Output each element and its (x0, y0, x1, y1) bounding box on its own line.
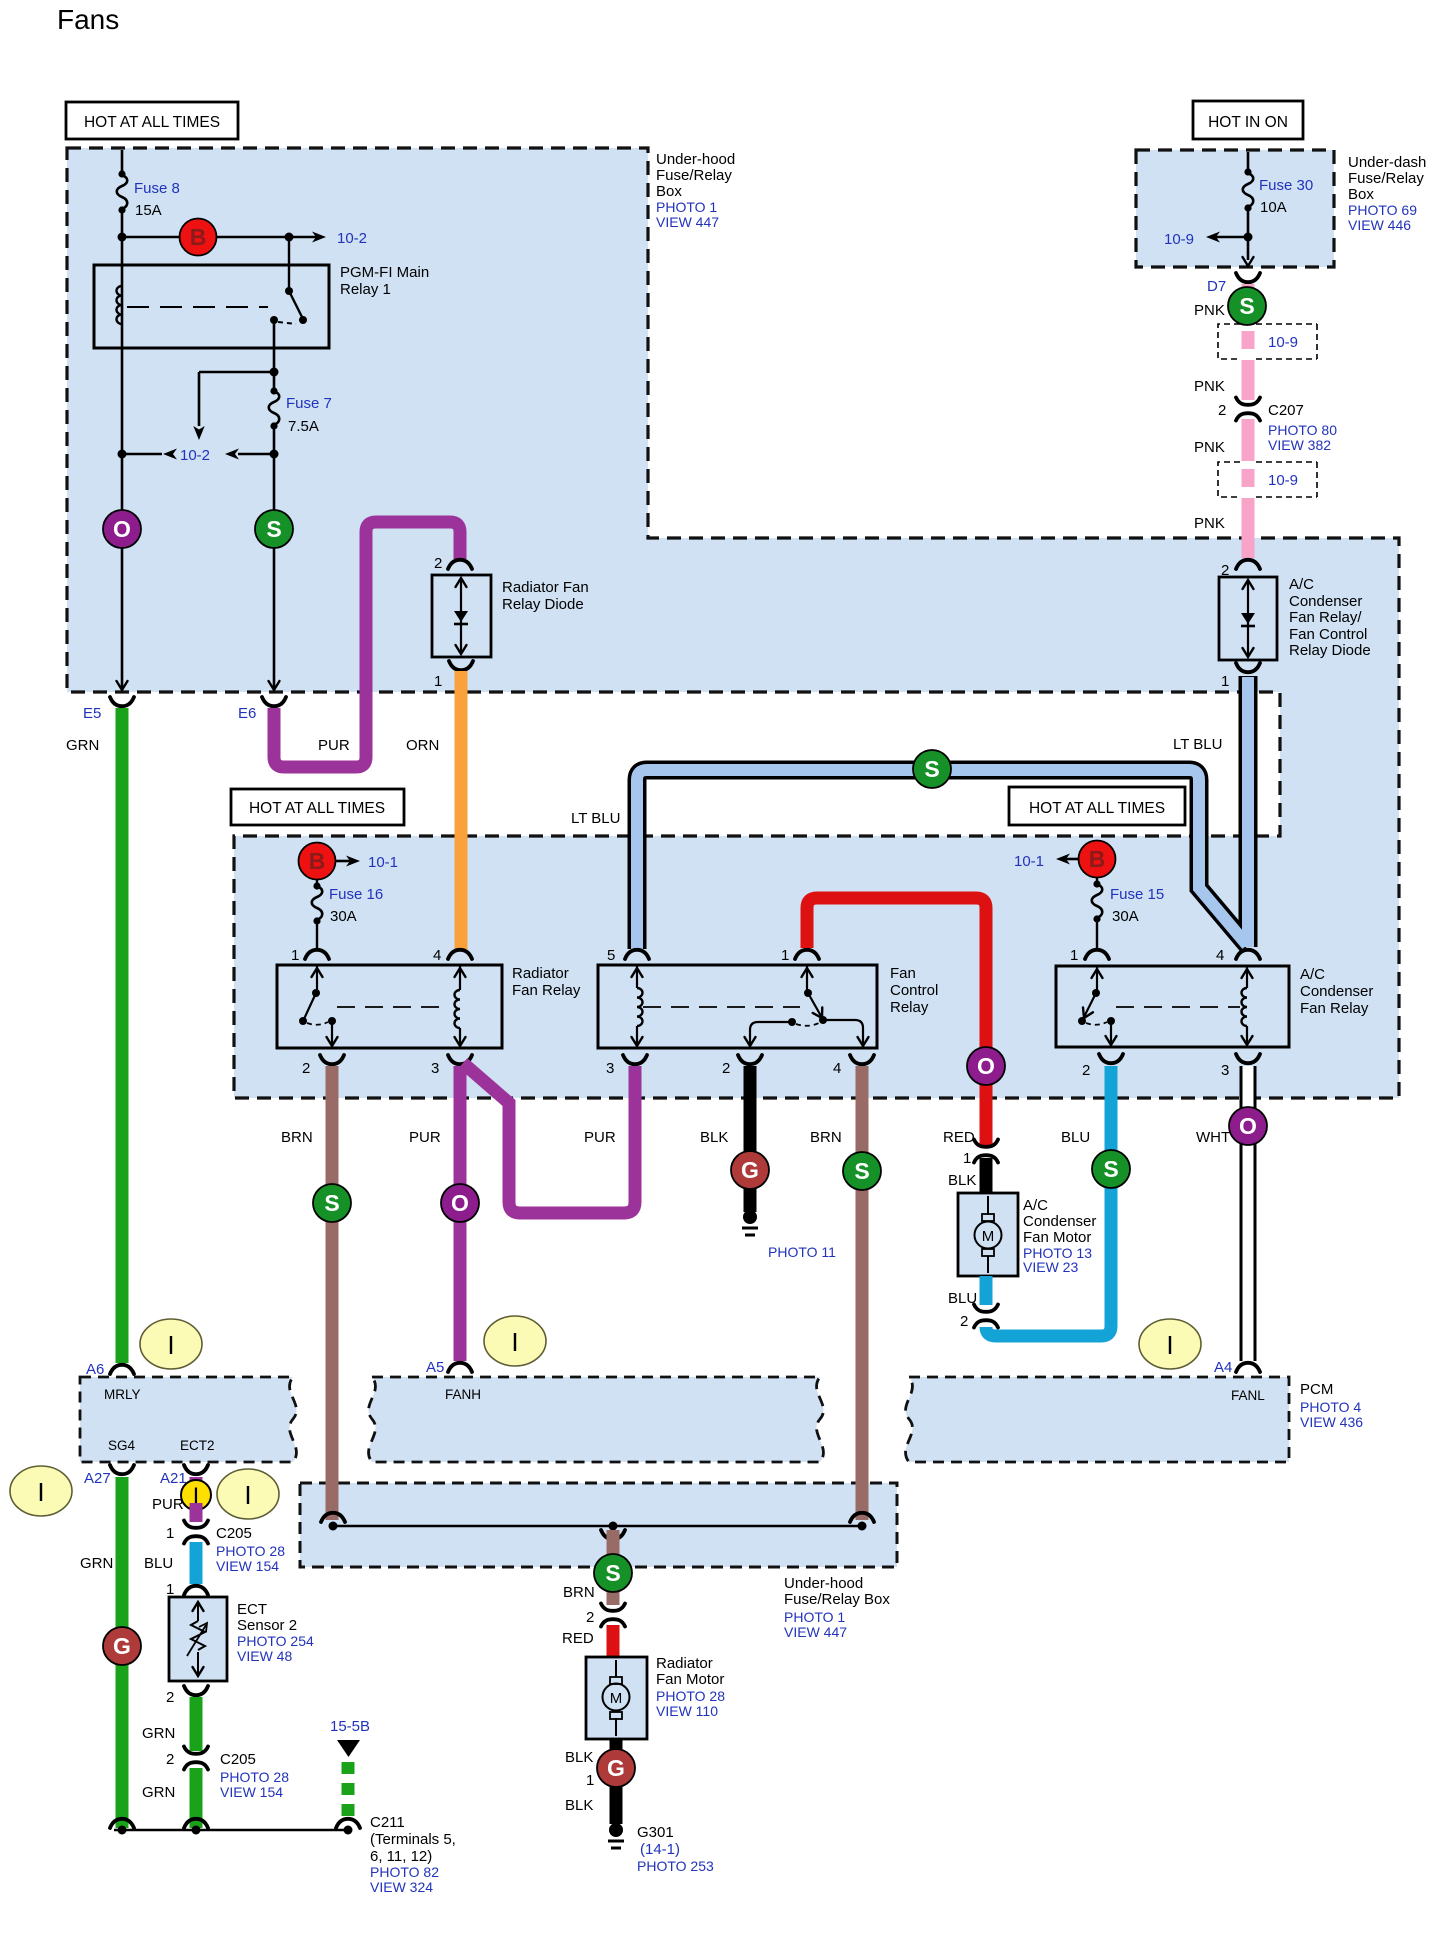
PGM-FI relay actuation dashed line (127, 306, 268, 308)
radiator fan motor connector 2 (601, 1604, 625, 1627)
svg-text:VIEW 48: VIEW 48 (237, 1648, 292, 1664)
svg-text:VIEW 324: VIEW 324 (370, 1879, 433, 1895)
svg-text:PHOTO 28: PHOTO 28 (216, 1543, 285, 1559)
pink wire C207 to bracket 2 (1242, 419, 1255, 461)
svg-text:Fan: Fan (890, 965, 916, 982)
svg-text:PUR: PUR (584, 1129, 616, 1146)
svg-text:ORN: ORN (406, 737, 439, 754)
A/C condenser fan relay switch (1096, 967, 1098, 993)
svg-text:Relay Diode: Relay Diode (1289, 642, 1371, 659)
svg-text:Fuse/Relay: Fuse/Relay (656, 167, 732, 184)
circle S1 (255, 510, 293, 548)
svg-text:HOT AT ALL TIMES: HOT AT ALL TIMES (249, 800, 385, 817)
svg-text:PNK: PNK (1194, 439, 1225, 456)
radiator fan relay box (277, 965, 502, 1048)
svg-text:15-5B: 15-5B (330, 1718, 370, 1735)
svg-text:Relay 1: Relay 1 (340, 281, 391, 298)
A/C motor connector 1 (974, 1140, 998, 1163)
PGM-FI main relay 1 box (94, 265, 329, 348)
under-hood fuse/relay box (bottom) (300, 1483, 897, 1567)
PCM box section 3 (906, 1377, 1289, 1462)
svg-text:PHOTO 82: PHOTO 82 (370, 1864, 439, 1880)
svg-text:PUR: PUR (152, 1496, 184, 1513)
A/C condenser fan relay coil (1246, 967, 1248, 1045)
E5 arrow at box edge (117, 681, 128, 690)
svg-text:1: 1 (586, 1772, 594, 1789)
fan control relay box (598, 965, 877, 1048)
svg-text:M: M (982, 1228, 995, 1245)
svg-text:I: I (167, 1330, 174, 1360)
svg-text:3: 3 (1221, 1062, 1229, 1079)
radiator fan relay pin 1 connector (305, 950, 329, 959)
green dashed wire to C211 rail (342, 1762, 355, 1824)
svg-text:PNK: PNK (1194, 302, 1225, 319)
fuse 8 (118, 170, 125, 177)
svg-text:PUR: PUR (409, 1129, 441, 1146)
svg-text:ECT: ECT (237, 1601, 267, 1618)
svg-text:Control: Control (890, 982, 938, 999)
svg-text:S: S (924, 756, 939, 782)
svg-text:VIEW 154: VIEW 154 (220, 1784, 283, 1800)
svg-text:A21: A21 (160, 1470, 187, 1487)
svg-text:GRN: GRN (142, 1784, 175, 1801)
svg-text:10-2: 10-2 (180, 447, 210, 464)
radiator fan relay pin 3 connector (448, 1055, 472, 1064)
svg-text:10-2: 10-2 (337, 230, 367, 247)
svg-text:RED: RED (562, 1630, 594, 1647)
svg-text:10-9: 10-9 (1164, 231, 1194, 248)
svg-text:Under-hood: Under-hood (784, 1575, 863, 1592)
black wire to A/C motor (980, 1158, 993, 1193)
pink wire bracket1 to C207 (1242, 360, 1255, 400)
svg-text:GRN: GRN (66, 737, 99, 754)
C205 connector pin 2 (184, 1747, 208, 1770)
svg-text:3: 3 (606, 1060, 614, 1077)
A21 connector (184, 1465, 208, 1474)
A/C motor connector 2 (974, 1305, 998, 1328)
A/C diode connector pin 1 (1236, 663, 1260, 672)
svg-text:PGM-FI Main: PGM-FI Main (340, 264, 429, 281)
svg-text:S: S (854, 1158, 869, 1184)
svg-text:Box: Box (656, 183, 682, 200)
svg-text:M: M (610, 1690, 623, 1707)
svg-text:VIEW 23: VIEW 23 (1023, 1259, 1078, 1275)
svg-text:VIEW 382: VIEW 382 (1268, 437, 1331, 453)
indicator ellipse I4 (10, 1466, 72, 1516)
under-hood box rail (333, 1525, 862, 1528)
svg-text:O: O (977, 1053, 995, 1079)
fan control relay pin 3 connector (623, 1055, 647, 1064)
brown wire fan control relay pin4 to under-hood box junction (856, 1066, 869, 1520)
svg-text:PCM: PCM (1300, 1381, 1333, 1398)
ECT sensor connector 1 (184, 1586, 208, 1595)
svg-text:PHOTO 4: PHOTO 4 (1300, 1399, 1361, 1415)
cyan wire C205 to ECT sensor 2 (190, 1542, 203, 1584)
svg-text:PHOTO 28: PHOTO 28 (220, 1769, 289, 1785)
circle B2 and 10-1 arrow (336, 860, 352, 863)
svg-text:G301: G301 (637, 1824, 674, 1841)
svg-text:B: B (1089, 846, 1106, 872)
svg-text:Under-dash: Under-dash (1348, 154, 1426, 171)
svg-text:Fuse 8: Fuse 8 (134, 180, 180, 197)
fuse 30 (1244, 168, 1251, 175)
svg-text:4: 4 (833, 1060, 841, 1077)
radiator fan relay diode internals (460, 578, 462, 654)
svg-text:1: 1 (166, 1525, 174, 1542)
svg-text:Condenser: Condenser (1289, 593, 1362, 610)
E6 arrow at box edge (269, 681, 280, 690)
svg-text:HOT IN ON: HOT IN ON (1208, 114, 1288, 131)
svg-text:S: S (1103, 1156, 1118, 1182)
svg-text:I: I (37, 1477, 44, 1507)
svg-text:FANH: FANH (445, 1387, 481, 1402)
fuse 16 (316, 880, 318, 950)
circle O4 on white (1229, 1107, 1267, 1145)
indicator ellipse I3 (1139, 1319, 1201, 1369)
svg-text:VIEW 154: VIEW 154 (216, 1558, 279, 1574)
lt blue wire fan control relay pin 5 loop to pin 4 (outlined) (637, 770, 1248, 949)
circle G2 on green (103, 1627, 141, 1665)
svg-text:Fan Motor: Fan Motor (656, 1671, 724, 1688)
brown wire junction to radiator fan motor connector (607, 1530, 620, 1605)
svg-text:HOT AT ALL TIMES: HOT AT ALL TIMES (1029, 800, 1165, 817)
purple stub to C205 (190, 1503, 203, 1522)
svg-text:PHOTO 253: PHOTO 253 (637, 1858, 714, 1874)
10-9 pass-through bracket 2 (1218, 462, 1317, 497)
svg-text:PHOTO 69: PHOTO 69 (1348, 202, 1417, 218)
svg-text:1: 1 (1221, 673, 1229, 690)
svg-text:PNK: PNK (1194, 515, 1225, 532)
A/C condenser fan relay actuation dashed (1116, 1006, 1240, 1008)
svg-text:7.5A: 7.5A (288, 418, 319, 435)
ECT sensor pin 2 connector (184, 1686, 208, 1695)
C211 rail (114, 1829, 350, 1832)
PCM box section 1 (80, 1377, 296, 1462)
svg-text:I: I (1166, 1330, 1173, 1360)
A/C condenser fan relay pin 1 connector (1085, 950, 1109, 959)
svg-text:1: 1 (781, 947, 789, 964)
svg-text:30A: 30A (330, 908, 357, 925)
svg-text:Box: Box (1348, 186, 1374, 203)
svg-text:SG4: SG4 (108, 1438, 136, 1453)
svg-text:ECT2: ECT2 (180, 1438, 215, 1453)
svg-text:15A: 15A (135, 202, 162, 219)
svg-text:BLK: BLK (948, 1172, 976, 1189)
svg-text:C205: C205 (216, 1525, 252, 1542)
PCM box section 2 (369, 1377, 824, 1462)
svg-text:C205: C205 (220, 1751, 256, 1768)
svg-text:VIEW 447: VIEW 447 (784, 1624, 847, 1640)
10-2 left arrows row (122, 453, 162, 456)
svg-text:E5: E5 (83, 705, 101, 722)
svg-text:5: 5 (607, 947, 615, 964)
purple branch to fan control relay pin 3 (463, 1063, 635, 1213)
svg-text:FANL: FANL (1231, 1388, 1265, 1403)
fan control relay pin 4 connector (850, 1055, 874, 1064)
svg-text:10A: 10A (1260, 199, 1287, 216)
pink wire segment D7 to 10-9 bracket (1242, 284, 1255, 322)
circle O2 on purple (441, 1184, 479, 1222)
ground G301 (609, 1823, 623, 1837)
A4 connector (1236, 1363, 1260, 1372)
svg-text:10-1: 10-1 (368, 854, 398, 871)
svg-text:D7: D7 (1207, 278, 1226, 295)
red wire fan control relay pin1 to A/C condenser fan motor (807, 898, 986, 1145)
svg-text:VIEW 446: VIEW 446 (1348, 217, 1411, 233)
HOT AT ALL TIMES box 2 (231, 789, 404, 825)
svg-text:Fuse 30: Fuse 30 (1259, 177, 1313, 194)
radiator fan relay diode box (432, 575, 491, 657)
green wire E5 to PCM A6 (116, 708, 129, 1363)
E5 connector (110, 697, 134, 706)
radiator fan relay switch (316, 966, 318, 993)
svg-text:Relay: Relay (890, 999, 929, 1016)
circle O1 (103, 510, 141, 548)
purple wire E6 to radiator fan relay diode pin 2 (274, 522, 460, 767)
down arrow at under-dash box edge (1243, 257, 1254, 266)
black wire radiator fan motor to ground (610, 1739, 623, 1824)
fan control relay pin 1 connector (795, 950, 819, 959)
pink wire bracket2 to A/C diode pin 2 (1242, 498, 1255, 558)
svg-text:2: 2 (722, 1060, 730, 1077)
HOT AT ALL TIMES box 1 (66, 102, 238, 139)
white wire A/C condenser fan relay pin3 to PCM A4 (1240, 1066, 1257, 1361)
indicator ellipse I1 (140, 1319, 202, 1369)
svg-text:PHOTO 1: PHOTO 1 (784, 1609, 845, 1625)
circle S3 on lt blu horizontal (913, 750, 951, 788)
svg-text:VIEW 110: VIEW 110 (656, 1703, 718, 1719)
svg-text:PHOTO 1: PHOTO 1 (656, 199, 717, 215)
svg-text:E6: E6 (238, 705, 256, 722)
radiator fan motor box (586, 1657, 647, 1739)
svg-text:BLU: BLU (1061, 1129, 1090, 1146)
svg-text:2: 2 (960, 1313, 968, 1330)
branch left with down arrow (199, 372, 274, 426)
fan control relay actuation dashed (643, 1006, 800, 1008)
svg-text:PHOTO 254: PHOTO 254 (237, 1633, 314, 1649)
A27 connector (110, 1465, 134, 1474)
svg-text:(14-1): (14-1) (640, 1841, 680, 1858)
svg-text:S: S (605, 1560, 620, 1586)
svg-text:B: B (190, 224, 207, 250)
svg-text:GRN: GRN (142, 1725, 175, 1742)
svg-text:2: 2 (302, 1060, 310, 1077)
fuse 7 (270, 387, 277, 394)
svg-text:2: 2 (1218, 402, 1226, 419)
wire from box top to fuse 8 and down (121, 150, 124, 690)
svg-text:BRN: BRN (563, 1584, 595, 1601)
svg-text:6, 11, 12): 6, 11, 12) (370, 1848, 432, 1865)
svg-text:I: I (244, 1480, 251, 1510)
svg-text:Fans: Fans (57, 4, 119, 35)
svg-text:C211: C211 (370, 1814, 405, 1831)
indicator ellipse I2 (484, 1316, 546, 1366)
ECT sensor 2 box (169, 1597, 227, 1681)
svg-text:Fuse 7: Fuse 7 (286, 395, 332, 412)
svg-text:PUR: PUR (318, 737, 350, 754)
svg-text:I: I (511, 1327, 518, 1357)
lt blue wire diode pin1 to A/C condenser fan relay pin 4 (outlined) (1239, 676, 1258, 947)
circle G1 on black (731, 1151, 769, 1189)
radiator fan relay pin 4 connector (448, 950, 472, 959)
circle B3 and 10-1 arrow (1062, 858, 1078, 861)
svg-text:RED: RED (943, 1129, 975, 1146)
svg-text:MRLY: MRLY (104, 1387, 141, 1402)
fan control relay pin 2 connector (738, 1055, 762, 1064)
svg-text:O: O (113, 516, 131, 542)
svg-text:S: S (266, 516, 281, 542)
svg-text:2: 2 (166, 1689, 174, 1706)
svg-text:4: 4 (1216, 947, 1224, 964)
svg-text:B: B (309, 848, 326, 874)
svg-text:Fan Relay/: Fan Relay/ (1289, 609, 1362, 626)
radiator fan relay diode connector pin 2 (448, 560, 472, 569)
svg-text:PNK: PNK (1194, 378, 1225, 395)
indicator ellipse I5 (217, 1469, 279, 1519)
svg-text:A/C: A/C (1289, 576, 1314, 593)
brown wire radiator fan relay pin2 to under-hood box junction (326, 1066, 339, 1520)
svg-text:G: G (113, 1633, 131, 1659)
C205 connector pin 1 (184, 1521, 208, 1544)
D7 connector (1236, 273, 1260, 282)
10-9 branch arrow (1211, 236, 1248, 239)
purple wire radiator fan relay pin3 to PCM A5 (454, 1066, 467, 1361)
svg-text:Condenser: Condenser (1023, 1213, 1096, 1230)
wire in under-dash box (1247, 152, 1250, 260)
svg-text:O: O (451, 1190, 469, 1216)
svg-text:2: 2 (1082, 1062, 1090, 1079)
svg-text:BLK: BLK (565, 1749, 593, 1766)
orange wire diode pin1 to radiator fan relay pin 4 (455, 671, 468, 950)
A/C diode connector pin 2 (1236, 560, 1260, 569)
svg-text:A/C: A/C (1300, 966, 1325, 983)
circle G3 on black (597, 1749, 635, 1787)
svg-text:Fan Relay: Fan Relay (1300, 1000, 1369, 1017)
svg-text:2: 2 (166, 1751, 174, 1768)
A/C condenser fan relay / fan control relay diode box (1219, 577, 1277, 660)
svg-text:BRN: BRN (281, 1129, 313, 1146)
black wire fan control relay pin2 to ground (744, 1066, 757, 1212)
fan control relay coil (636, 966, 638, 1046)
E6 connector (262, 697, 286, 706)
svg-text:10-9: 10-9 (1268, 472, 1298, 489)
svg-text:A4: A4 (1214, 1359, 1232, 1376)
radiator fan relay diode connector pin 1 (449, 661, 473, 670)
under-hood fuse/relay box region (blue polygon with dashed border) (67, 148, 1399, 1098)
svg-text:LT BLU: LT BLU (571, 810, 620, 827)
svg-text:G: G (607, 1755, 625, 1781)
svg-text:A5: A5 (426, 1359, 444, 1376)
svg-text:A/C: A/C (1023, 1197, 1048, 1214)
svg-text:2: 2 (434, 555, 442, 572)
svg-text:G: G (741, 1157, 759, 1183)
circle S6 on cyan (1092, 1150, 1130, 1188)
green wire C205 to rail (190, 1768, 203, 1828)
HOT AT ALL TIMES box 3 (1009, 787, 1185, 825)
svg-text:Fuse 16: Fuse 16 (329, 886, 383, 903)
svg-text:S: S (324, 1190, 339, 1216)
svg-text:O: O (1239, 1113, 1257, 1139)
svg-text:Fan Motor: Fan Motor (1023, 1229, 1091, 1246)
svg-text:PHOTO 11: PHOTO 11 (768, 1244, 836, 1260)
svg-text:Under-hood: Under-hood (656, 151, 735, 168)
green wire ECT to C205 pin2 (190, 1697, 203, 1751)
svg-text:Condenser: Condenser (1300, 983, 1373, 1000)
svg-text:10-1: 10-1 (1014, 853, 1044, 870)
svg-text:(Terminals 5,: (Terminals 5, (370, 1831, 456, 1848)
svg-text:PHOTO 28: PHOTO 28 (656, 1688, 725, 1704)
svg-text:BLU: BLU (144, 1555, 173, 1572)
radiator fan relay actuation dashed (337, 1006, 447, 1008)
circle S7 on brown3 (594, 1554, 632, 1592)
A/C condenser fan relay pin 2 connector (1099, 1054, 1123, 1063)
A/C condenser fan relay pin 4 connector (1236, 950, 1260, 959)
svg-text:Radiator: Radiator (656, 1655, 713, 1672)
A/C condenser fan relay box (1056, 966, 1289, 1047)
purple stub A21 (190, 1477, 203, 1488)
svg-text:1: 1 (963, 1150, 971, 1167)
svg-text:Fuse/Relay: Fuse/Relay (1348, 170, 1424, 187)
svg-text:Fan Relay: Fan Relay (512, 982, 581, 999)
radiator fan relay coil (459, 966, 461, 1046)
fuse 15 (1096, 878, 1098, 950)
svg-text:3: 3 (431, 1060, 439, 1077)
A6 connector (110, 1365, 134, 1374)
A/C diode internals (1247, 580, 1249, 657)
svg-text:1: 1 (291, 947, 299, 964)
PGM-FI relay switch (288, 237, 290, 291)
svg-text:C207: C207 (1268, 402, 1304, 419)
svg-text:HOT AT ALL TIMES: HOT AT ALL TIMES (84, 114, 220, 131)
svg-text:PHOTO 80: PHOTO 80 (1268, 422, 1337, 438)
under-dash fuse/relay box (1136, 150, 1334, 267)
circle B1 (180, 219, 217, 256)
svg-text:VIEW 447: VIEW 447 (656, 214, 719, 230)
circle S5 on brown2 (843, 1152, 881, 1190)
circle S4 on brown (313, 1184, 351, 1222)
svg-text:Fuse 15: Fuse 15 (1110, 886, 1164, 903)
fan control relay switch (806, 966, 808, 993)
svg-text:GRN: GRN (80, 1555, 113, 1572)
svg-text:Radiator: Radiator (512, 965, 569, 982)
svg-text:30A: 30A (1112, 908, 1139, 925)
fan control relay pin 5 connector (625, 950, 649, 959)
svg-text:LT BLU: LT BLU (1173, 736, 1222, 753)
HOT IN ON box (1193, 101, 1303, 139)
radiator fan relay pin 2 connector (320, 1055, 344, 1064)
bright yellow I circle (181, 1480, 211, 1510)
wire fuse7 to E6 arrow (273, 454, 276, 689)
svg-text:Sensor 2: Sensor 2 (237, 1617, 297, 1634)
svg-text:Fuse/Relay Box: Fuse/Relay Box (784, 1591, 890, 1608)
svg-text:10-9: 10-9 (1268, 334, 1298, 351)
wire to B and 10-2 (122, 236, 318, 239)
green wire A27 down to C211 rail (116, 1477, 129, 1828)
svg-text:Radiator Fan: Radiator Fan (502, 579, 589, 596)
svg-text:2: 2 (586, 1609, 594, 1626)
svg-text:WHT: WHT (1196, 1129, 1230, 1146)
svg-text:BLK: BLK (565, 1797, 593, 1814)
PGM-FI relay coil (117, 286, 123, 324)
C207 connector (1236, 398, 1260, 421)
circle S2 (1228, 287, 1266, 325)
svg-text:1: 1 (434, 673, 442, 690)
red wire to radiator fan motor (607, 1625, 620, 1657)
svg-text:VIEW 436: VIEW 436 (1300, 1414, 1363, 1430)
circle O3 on red (967, 1047, 1005, 1085)
svg-text:A6: A6 (86, 1361, 104, 1378)
svg-text:A27: A27 (84, 1470, 111, 1487)
